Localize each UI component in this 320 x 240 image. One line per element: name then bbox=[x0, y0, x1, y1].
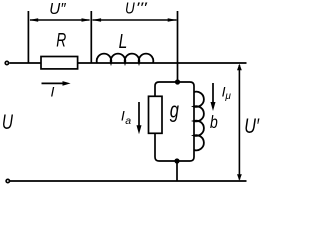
svg-text:a: a bbox=[125, 115, 131, 127]
dimension U' arrow line bbox=[237, 64, 242, 181]
svg-text:U′: U′ bbox=[244, 115, 260, 139]
current arrow Imu bbox=[211, 83, 216, 111]
svg-text:b: b bbox=[210, 114, 218, 133]
wire bottom main bbox=[10, 180, 247, 182]
wire feed lower bbox=[176, 161, 178, 181]
terminal top-left bbox=[5, 61, 8, 64]
resistor R bbox=[41, 57, 78, 69]
svg-text:U: U bbox=[125, 1, 135, 18]
shunt loop frame bbox=[155, 82, 194, 161]
susceptance b coil bbox=[194, 92, 204, 151]
svg-text:R: R bbox=[56, 29, 66, 51]
dimension tick right / feed wire upper bbox=[177, 11, 179, 82]
dimension tick middle bbox=[90, 11, 92, 63]
svg-text:U: U bbox=[2, 110, 14, 134]
svg-text:g: g bbox=[170, 98, 179, 123]
junction dot top bbox=[175, 79, 180, 84]
current arrow Ia bbox=[137, 102, 142, 134]
current arrow I bbox=[42, 81, 71, 86]
svg-text:′′′: ′′′ bbox=[136, 0, 149, 15]
svg-text:L: L bbox=[119, 30, 128, 52]
inductor L bbox=[97, 54, 154, 63]
svg-text:I: I bbox=[51, 84, 55, 100]
dimension U''' arrow line bbox=[92, 18, 177, 22]
dimension tick left bbox=[27, 11, 29, 63]
svg-text:μ: μ bbox=[224, 91, 231, 102]
conductance g bbox=[149, 96, 163, 133]
terminal bottom-left bbox=[6, 179, 9, 182]
svg-text:U″: U″ bbox=[49, 1, 66, 18]
dimension U'' arrow line bbox=[29, 18, 90, 22]
junction dot bottom bbox=[174, 158, 179, 163]
wire top main bbox=[9, 62, 246, 64]
